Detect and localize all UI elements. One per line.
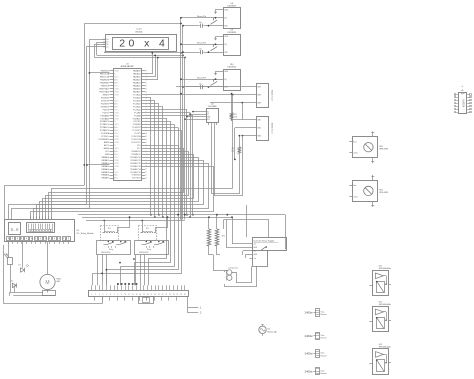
svg-text:CLKO: CLKO [114, 148, 119, 150]
svg-text:12: 12 [132, 294, 134, 296]
svg-text:AVCC: AVCC [104, 144, 110, 147]
svg-text:Mains_AC: Mains_AC [268, 330, 278, 333]
svg-text:20 x 4: 20 x 4 [119, 38, 168, 50]
svg-text:SW3: SW3 [257, 135, 261, 137]
svg-text:U2: U2 [211, 103, 214, 105]
svg-text:3: 3 [99, 294, 100, 296]
svg-text:PK5/ADC13: PK5/ADC13 [130, 165, 140, 168]
svg-text:ATMEGA328P: ATMEGA328P [121, 65, 135, 68]
svg-text:PB6/XTAL1: PB6/XTAL1 [99, 88, 109, 91]
svg-text:PC5/A13: PC5/A13 [133, 99, 141, 102]
svg-text:GND: GND [253, 254, 258, 256]
svg-text:PC5/SCL: PC5/SCL [101, 136, 109, 138]
svg-text:RL1: RL1 [146, 228, 149, 230]
svg-text:24: 24 [177, 294, 179, 296]
svg-text:V1: V1 [268, 328, 271, 330]
svg-text:PC7/A15: PC7/A15 [133, 93, 141, 96]
svg-text:PC6/A14: PC6/A14 [133, 96, 141, 99]
svg-text:PK3/ADC11: PK3/ADC11 [131, 159, 141, 162]
svg-text:+Vbat: +Vbat [353, 195, 358, 198]
svg-text:+5v: +5v [253, 244, 256, 246]
svg-text:PA7/AD7: PA7/AD7 [133, 91, 141, 94]
svg-text:SW1: SW1 [257, 120, 261, 122]
svg-text:PA0/AD0: PA0/AD0 [133, 70, 141, 73]
svg-text:SSR 40A 440v: SSR 40A 440v [379, 346, 391, 349]
svg-text:25: 25 [180, 294, 182, 296]
svg-text:PB5/SCK: PB5/SCK [101, 86, 110, 88]
svg-text:41: 41 [145, 82, 147, 84]
svg-text:D7: D7 [106, 47, 108, 49]
svg-text:PL7: PL7 [137, 148, 140, 150]
svg-text:9: 9 [121, 294, 122, 296]
svg-text:4: 4 [103, 294, 104, 296]
svg-text:SW2: SW2 [257, 95, 261, 97]
svg-text:Reset Pin: Reset Pin [197, 42, 207, 45]
svg-text:PJ0/RXD3: PJ0/RXD3 [132, 175, 141, 177]
svg-text:PA0/AD0: PA0/AD0 [101, 156, 109, 159]
svg-text:OC1B: OC1B [114, 139, 118, 141]
svg-text:14: 14 [139, 294, 141, 296]
svg-text:DS18B20: DS18B20 [227, 5, 236, 7]
svg-text:SPR-GWF: SPR-GWF [379, 192, 389, 194]
svg-text:21: 21 [165, 294, 167, 296]
svg-text:PB7/XTAL2: PB7/XTAL2 [99, 91, 109, 94]
svg-text:Compressor: Compressor [228, 267, 239, 270]
svg-text:8.8: 8.8 [11, 227, 19, 233]
svg-text:OC0B: OC0B [114, 118, 118, 120]
svg-text:PD4/T0: PD4/T0 [103, 109, 109, 111]
svg-text:8: 8 [117, 294, 118, 296]
svg-text:+5v: +5v [253, 258, 256, 260]
svg-text:18: 18 [154, 294, 156, 296]
svg-text:OMI-SH-205D: OMI-SH-205D [139, 252, 149, 254]
svg-text:PD6/AIN0: PD6/AIN0 [101, 114, 109, 117]
svg-text:26: 26 [184, 294, 186, 296]
svg-text:PC3/A11: PC3/A11 [133, 105, 140, 108]
svg-text:T1: T1 [114, 169, 116, 171]
svg-text:PL2/T5: PL2/T5 [134, 133, 140, 135]
svg-text:OC0B: OC0B [114, 94, 118, 96]
svg-text:PA1/AD1: PA1/AD1 [101, 159, 109, 162]
svg-text:PL0/ICP4: PL0/ICP4 [133, 127, 141, 129]
svg-text:61: 61 [145, 142, 147, 144]
svg-text:DS18B20: DS18B20 [227, 32, 236, 34]
svg-text:T1: T1 [114, 74, 116, 76]
svg-text:ICP1: ICP1 [114, 86, 118, 88]
svg-text:LM324: LM324 [462, 99, 466, 107]
svg-text:Vout: Vout [353, 140, 357, 143]
svg-text:13: 13 [136, 294, 138, 296]
svg-text:CLKO: CLKO [114, 172, 119, 174]
svg-text:ICP1: ICP1 [114, 157, 118, 159]
svg-text:PK6/ADC14: PK6/ADC14 [130, 168, 140, 171]
svg-text:Switch level: Switch level [271, 123, 274, 134]
svg-text:70: 70 [145, 169, 147, 171]
svg-text:ICL_Relay_Module: ICL_Relay_Module [77, 233, 95, 235]
svg-text:+: + [461, 85, 463, 88]
svg-text:SW2: SW2 [257, 127, 261, 129]
svg-text:OC1A: OC1A [114, 111, 119, 114]
svg-text:D1: D1 [11, 280, 13, 282]
svg-text:Heater: Heater [321, 372, 327, 375]
svg-text:DS18B20: DS18B20 [227, 67, 236, 69]
svg-text:Heater: Heater [321, 354, 327, 357]
svg-text:PD5/T1: PD5/T1 [103, 112, 109, 114]
svg-text:Relay: Relay [147, 249, 151, 251]
svg-text:37: 37 [145, 71, 147, 73]
svg-text:PA1/AD1: PA1/AD1 [133, 73, 141, 76]
svg-text:D2: D2 [19, 265, 21, 267]
svg-text:PJ1/TXD3: PJ1/TXD3 [132, 178, 141, 180]
svg-text:PA3/AD3: PA3/AD3 [133, 79, 141, 82]
svg-text:43: 43 [145, 88, 147, 90]
svg-text:17: 17 [150, 294, 152, 296]
svg-text:PD2/INT0: PD2/INT0 [101, 103, 109, 105]
svg-text:2: 2 [95, 294, 96, 296]
svg-text:AIN0: AIN0 [114, 79, 118, 82]
svg-text:PC1/ADC1: PC1/ADC1 [100, 123, 109, 126]
svg-text:SCL: SCL [207, 119, 210, 121]
svg-text:AIN0: AIN0 [114, 150, 118, 153]
svg-text:PC2/A10: PC2/A10 [133, 108, 141, 111]
svg-text:Vout: Vout [353, 184, 357, 187]
svg-text:PB2/OC1B: PB2/OC1B [100, 77, 110, 79]
svg-text:2: 2 [200, 311, 202, 314]
svg-text:10: 10 [124, 294, 126, 296]
svg-text:CLKO: CLKO [114, 124, 119, 126]
svg-text:PL1/ICP5: PL1/ICP5 [133, 130, 141, 132]
svg-text:GND: GND [253, 247, 258, 249]
svg-text:PK2/ADC10: PK2/ADC10 [130, 156, 140, 159]
svg-text:T1: T1 [114, 145, 116, 147]
svg-text:GND: GND [224, 36, 229, 38]
svg-text:PA2/AD2: PA2/AD2 [133, 76, 141, 79]
svg-text:10k: 10k [234, 116, 237, 118]
svg-text:22: 22 [169, 294, 171, 296]
svg-text:U6: U6 [461, 90, 463, 92]
svg-text:5kw: 5kw [321, 353, 325, 355]
svg-text:16: 16 [147, 294, 149, 296]
svg-text:DQ: DQ [224, 18, 227, 20]
svg-text:PG0/WR: PG0/WR [133, 124, 141, 126]
svg-text:AIN0: AIN0 [114, 102, 118, 105]
svg-text:PD0/RXD: PD0/RXD [101, 97, 110, 99]
svg-text:PL5/OC5C: PL5/OC5C [131, 142, 141, 144]
svg-text:RL1: RL1 [108, 228, 111, 230]
svg-text:ICP1: ICP1 [114, 133, 118, 135]
svg-text:PA5/AD5: PA5/AD5 [133, 85, 141, 88]
svg-text:AIN1: AIN1 [114, 129, 118, 132]
svg-text:71: 71 [145, 172, 147, 174]
svg-text:AIN0: AIN0 [114, 174, 118, 177]
svg-text:VDD: VDD [224, 87, 228, 89]
svg-text:44: 44 [145, 91, 147, 93]
svg-text:AIN0: AIN0 [114, 126, 118, 129]
svg-text:24C64AP: 24C64AP [208, 105, 217, 108]
svg-text:OC0B: OC0B [114, 71, 118, 73]
svg-text:AIN1: AIN1 [114, 177, 118, 180]
svg-text:10k: 10k [231, 151, 234, 153]
svg-text:OC1B: OC1B [114, 115, 118, 117]
svg-text:OC1A: OC1A [114, 135, 119, 138]
svg-text:OMI-SH-205D: OMI-SH-205D [101, 252, 111, 254]
svg-text:PC3/ADC3: PC3/ADC3 [100, 129, 109, 132]
svg-text:+9v: +9v [253, 251, 256, 253]
svg-text:15: 15 [143, 294, 145, 296]
svg-text:PK0/ADC8: PK0/ADC8 [131, 150, 140, 153]
svg-text:PA6/AD6: PA6/AD6 [133, 88, 141, 91]
svg-text:LM044L: LM044L [135, 31, 143, 33]
svg-text:PD7/AIN1: PD7/AIN1 [101, 117, 109, 120]
svg-text:20: 20 [162, 294, 164, 296]
svg-text:5kw: 5kw [321, 370, 325, 372]
svg-text:GND: GND [105, 154, 110, 156]
svg-text:PK7/ADC15: PK7/ADC15 [130, 171, 140, 174]
svg-text:OC0B: OC0B [114, 142, 118, 144]
svg-text:5kw: 5kw [321, 311, 325, 313]
svg-text:PB3/MOSI: PB3/MOSI [100, 80, 109, 82]
svg-text:ICP1: ICP1 [114, 109, 118, 111]
svg-text:58: 58 [145, 133, 147, 135]
svg-text:Relay: Relay [109, 249, 113, 251]
svg-text:Heater: Heater [321, 313, 327, 316]
svg-text:PA4/AD4: PA4/AD4 [101, 168, 109, 171]
svg-text:AGND: AGND [104, 147, 110, 150]
svg-text:GND: GND [224, 10, 229, 12]
svg-text:PA5/AD5: PA5/AD5 [101, 171, 109, 174]
svg-text:CLKO: CLKO [114, 100, 119, 102]
svg-text:PA3/AD3: PA3/AD3 [101, 165, 109, 168]
svg-text:AIN1: AIN1 [114, 82, 118, 85]
svg-text:PA6/AD6: PA6/AD6 [101, 174, 109, 177]
svg-text:PK4/ADC12: PK4/ADC12 [130, 162, 140, 165]
svg-text:T1: T1 [114, 97, 116, 99]
svg-text:13: 13 [103, 44, 105, 46]
svg-text:AREF: AREF [104, 141, 110, 144]
svg-text:TR1: TR1 [222, 236, 226, 238]
svg-text:SW1: SW1 [257, 87, 261, 89]
svg-text:60: 60 [145, 139, 147, 141]
svg-text:+Vbat: +Vbat [353, 152, 358, 155]
svg-text:PB1/OC1A: PB1/OC1A [100, 73, 110, 76]
svg-text:PD3/INT1: PD3/INT1 [101, 106, 109, 108]
svg-text:11: 11 [103, 39, 105, 41]
svg-text:VDD: VDD [224, 52, 228, 54]
svg-text:10u: 10u [199, 49, 202, 51]
svg-text:AIN1: AIN1 [114, 153, 118, 156]
svg-text:PB4/MISO: PB4/MISO [100, 83, 109, 85]
svg-text:PA4/AD4: PA4/AD4 [133, 82, 141, 85]
svg-text:Switch level: Switch level [271, 90, 274, 101]
svg-text:19: 19 [158, 294, 160, 296]
svg-text:PC6/RESET: PC6/RESET [99, 139, 110, 141]
svg-text:OC1B: OC1B [114, 92, 118, 94]
svg-text:U3: U3 [77, 230, 80, 232]
svg-text:PC0/A8: PC0/A8 [134, 114, 141, 117]
svg-text:2400w: 2400w [305, 334, 313, 338]
svg-text:2400w: 2400w [305, 369, 313, 373]
svg-text:2400w: 2400w [305, 352, 313, 356]
svg-text:AIN1: AIN1 [114, 105, 118, 108]
svg-text:1: 1 [200, 307, 202, 310]
svg-text:OC0B: OC0B [114, 166, 118, 168]
svg-text:OC1A: OC1A [114, 88, 119, 91]
svg-text:CLKO: CLKO [114, 77, 119, 79]
svg-text:2400w: 2400w [305, 310, 313, 314]
svg-text:6: 6 [110, 294, 111, 296]
svg-text:M: M [45, 280, 49, 286]
svg-text:LDR1: LDR1 [3, 254, 8, 256]
svg-text:SPR-GWF: SPR-GWF [379, 148, 389, 150]
svg-text:23: 23 [173, 294, 175, 296]
svg-text:OC1B: OC1B [114, 163, 118, 165]
svg-text:GND: GND [224, 71, 229, 73]
svg-text:12: 12 [103, 42, 105, 44]
svg-text:T1: T1 [114, 121, 116, 123]
svg-text:SSR 40A 440v: SSR 40A 440v [379, 303, 391, 306]
svg-text:5: 5 [106, 294, 107, 296]
svg-text:DQ: DQ [224, 44, 227, 46]
svg-text:VCC: VCC [105, 151, 110, 153]
svg-text:10u: 10u [199, 22, 202, 24]
svg-text:OC1A: OC1A [114, 159, 119, 162]
svg-text:PL4/OC5B: PL4/OC5B [132, 139, 142, 141]
svg-text:SW3: SW3 [257, 102, 261, 104]
svg-text:14: 14 [103, 47, 105, 49]
svg-text:PG2/ALE: PG2/ALE [133, 117, 142, 120]
svg-text:11: 11 [128, 294, 130, 296]
svg-text:PC4/A12: PC4/A12 [133, 102, 141, 105]
svg-text:Reset Pin: Reset Pin [197, 76, 207, 79]
svg-text:PL6: PL6 [137, 145, 140, 147]
svg-text:PD1/TXD: PD1/TXD [101, 100, 110, 102]
svg-text:U1: U1 [126, 63, 130, 65]
svg-text:7: 7 [114, 294, 115, 296]
svg-text:1: 1 [91, 294, 92, 296]
svg-text:Heater: Heater [321, 337, 327, 340]
svg-text:DQ: DQ [224, 79, 227, 81]
svg-text:SSR 40A 440v: SSR 40A 440v [379, 267, 391, 270]
svg-text:RESET: RESET [103, 94, 110, 96]
svg-text:72: 72 [145, 175, 147, 177]
svg-text:42: 42 [145, 85, 147, 87]
svg-text:PA7/AD7: PA7/AD7 [101, 177, 109, 180]
svg-text:59: 59 [145, 136, 147, 138]
svg-text:PC0/ADC0: PC0/ADC0 [100, 120, 109, 123]
svg-text:73: 73 [145, 178, 147, 180]
svg-text:PK1/ADC9: PK1/ADC9 [131, 153, 140, 156]
svg-text:PC4/SDA: PC4/SDA [101, 132, 110, 135]
svg-text:5kw: 5kw [321, 335, 325, 337]
svg-text:10u: 10u [199, 83, 202, 85]
svg-text:PL3/OC5A: PL3/OC5A [132, 135, 142, 138]
svg-text:VDD: VDD [224, 25, 228, 27]
svg-text:PG1/RD: PG1/RD [134, 121, 142, 123]
svg-text:PC1/A9: PC1/A9 [134, 111, 141, 114]
svg-text:PC2/ADC2: PC2/ADC2 [100, 126, 109, 129]
